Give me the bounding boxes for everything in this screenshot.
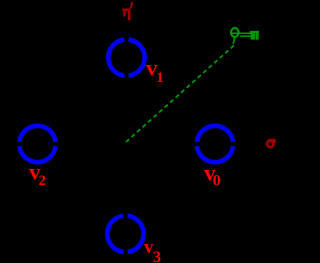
svg-text:2: 2: [39, 173, 47, 189]
svg-text:1: 1: [156, 70, 164, 86]
svg-text:0: 0: [213, 173, 221, 190]
svg-text:3: 3: [153, 249, 161, 263]
